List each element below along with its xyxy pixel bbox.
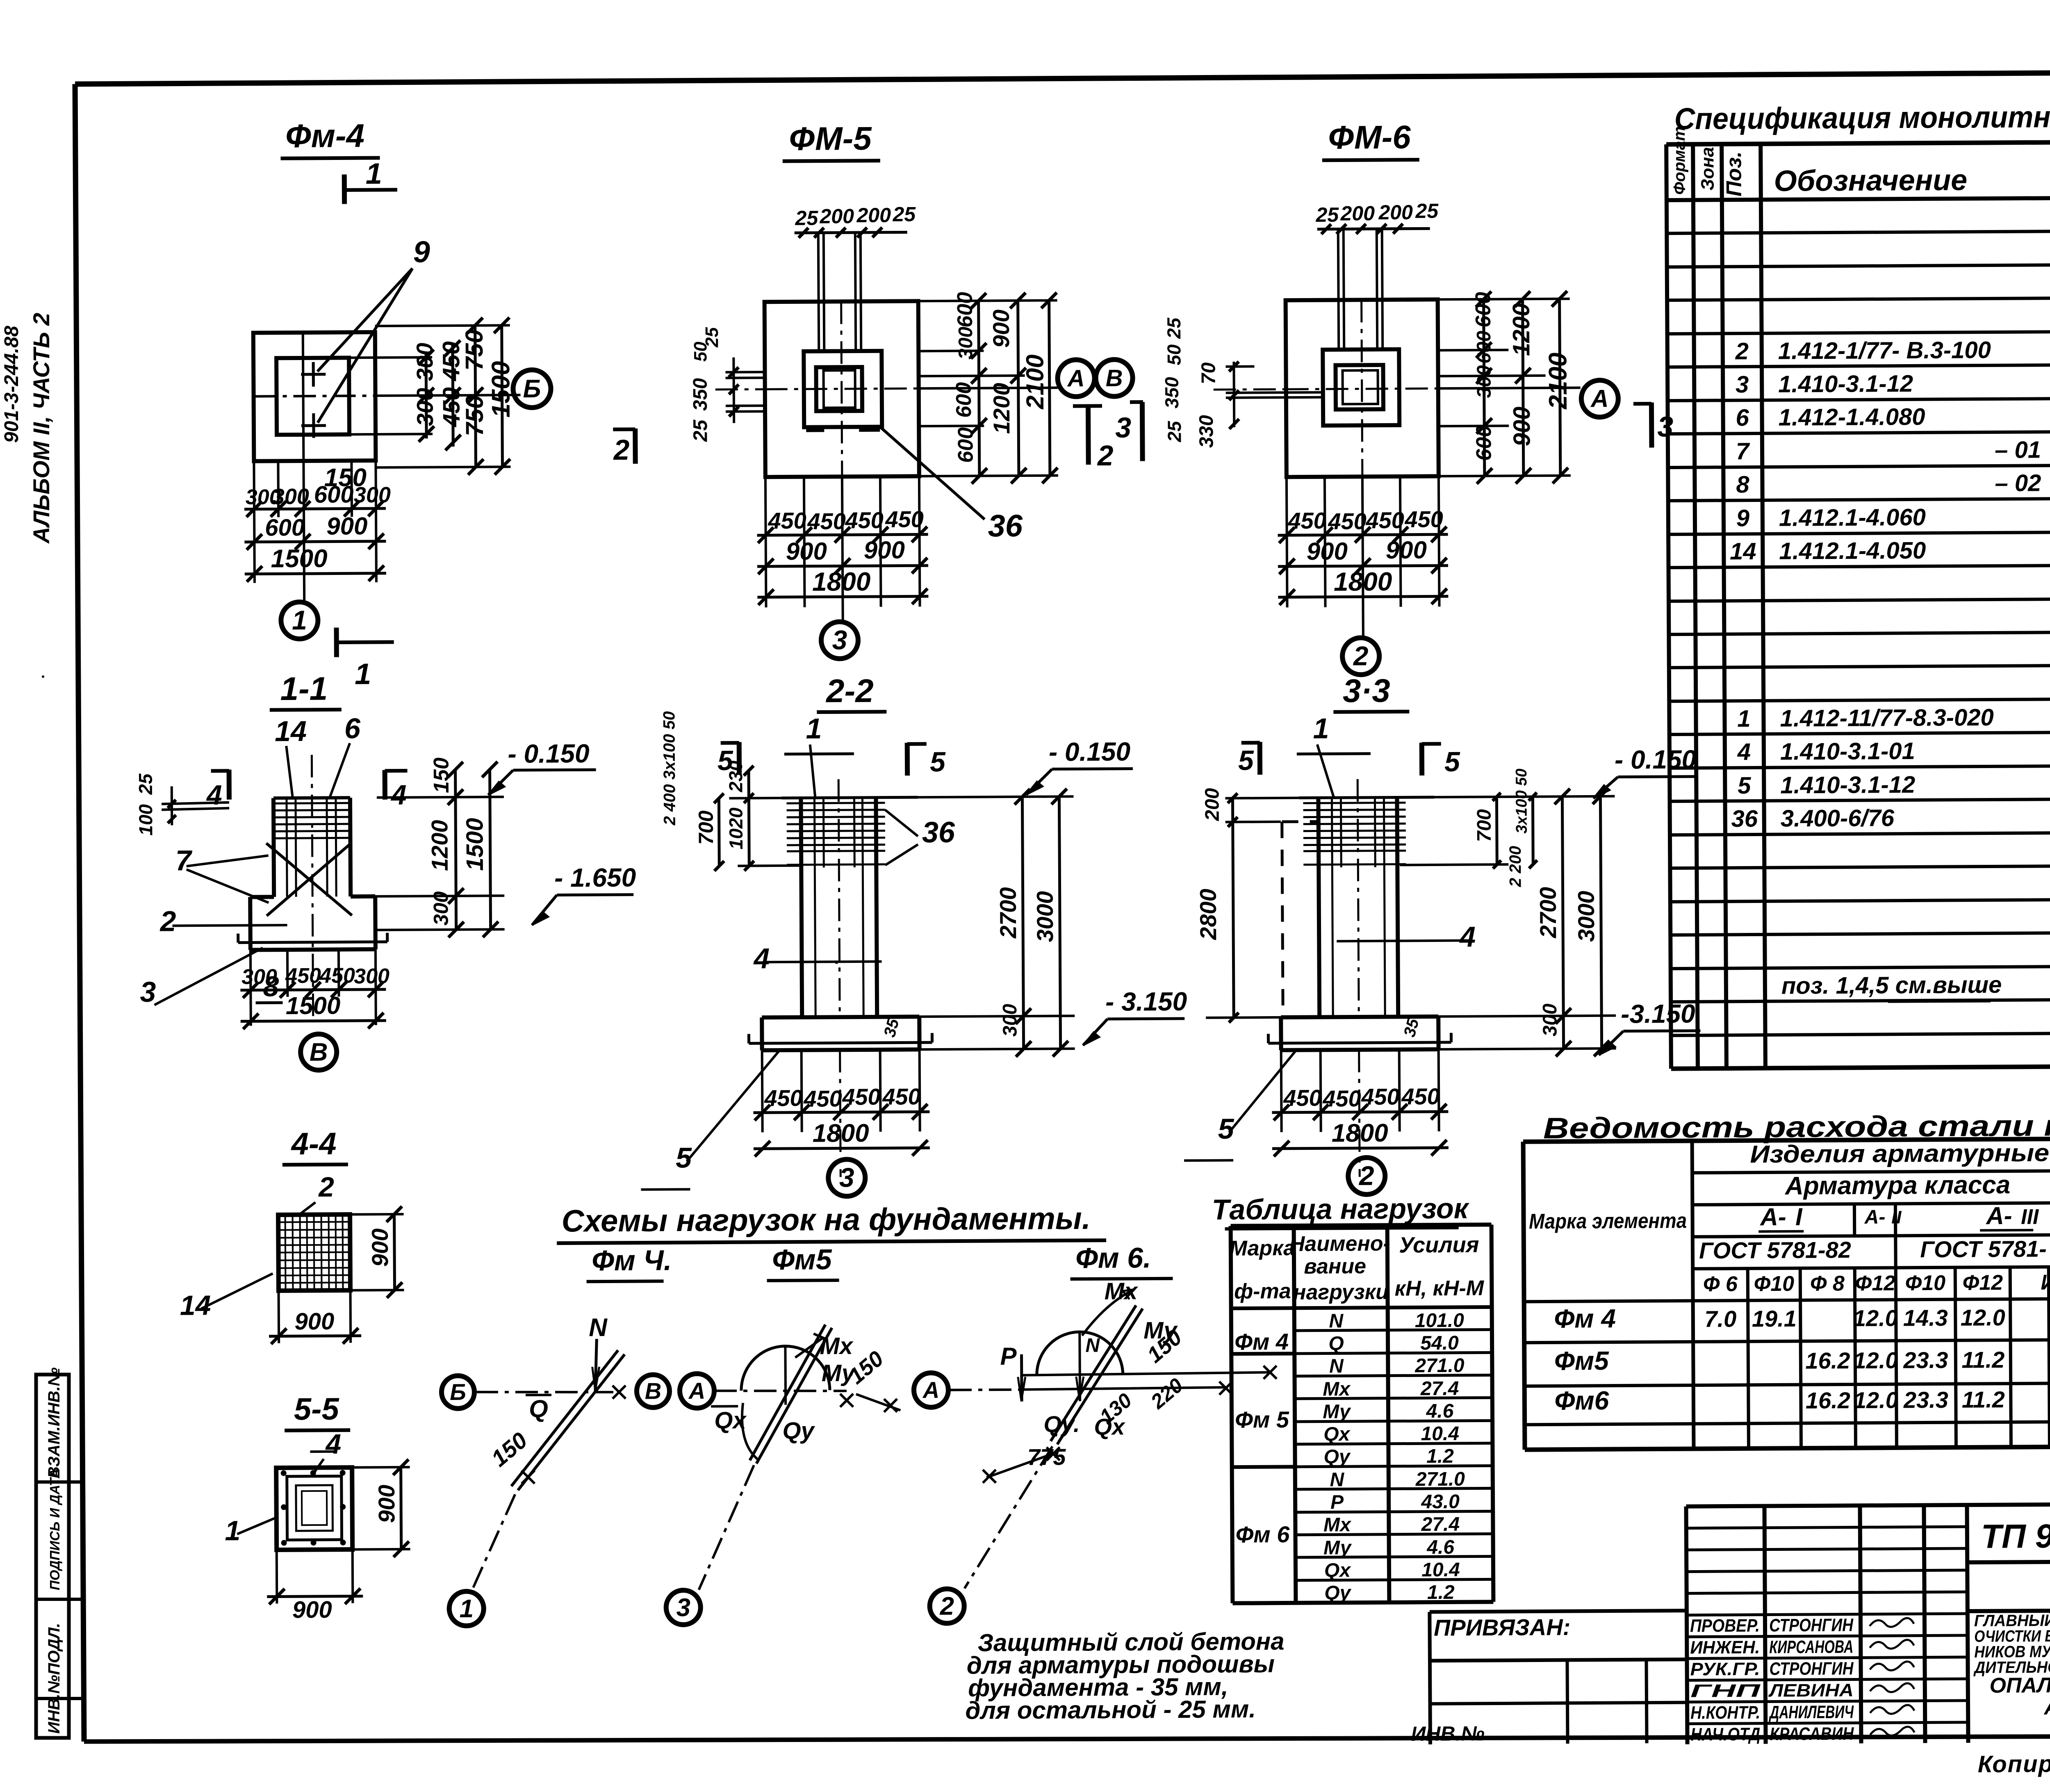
svg-text:23.3: 23.3 — [1903, 1387, 1948, 1413]
svg-text:5: 5 — [1444, 746, 1460, 777]
svg-text:200: 200 — [1378, 201, 1413, 224]
svg-text:4-4: 4-4 — [290, 1126, 336, 1162]
svg-text:ФМ-6: ФМ-6 — [1328, 119, 1411, 156]
svg-text:43.0: 43.0 — [1421, 1491, 1460, 1513]
svg-text:1.412.1-4.060: 1.412.1-4.060 — [1779, 504, 1926, 531]
svg-text:1200: 1200 — [989, 383, 1015, 434]
svg-text:16.2: 16.2 — [1805, 1347, 1850, 1374]
svg-text:Ф 8: Ф 8 — [1810, 1272, 1845, 1295]
svg-text:3: 3 — [140, 976, 156, 1008]
svg-text:1.410-3.1-12: 1.410-3.1-12 — [1778, 370, 1913, 398]
svg-text:5-5: 5-5 — [294, 1392, 340, 1427]
svg-text:- 3.150: - 3.150 — [1105, 987, 1187, 1017]
svg-text:вание: вание — [1304, 1254, 1366, 1279]
svg-text:450: 450 — [882, 1083, 921, 1109]
svg-text:1: 1 — [292, 605, 307, 635]
svg-text:Итого: Итого — [2041, 1270, 2050, 1295]
svg-text:600: 600 — [952, 382, 976, 418]
svg-text:ЛЕВИНА: ЛЕВИНА — [1768, 1680, 1854, 1701]
svg-text:КРАСАВИН: КРАСАВИН — [1770, 1724, 1854, 1744]
svg-text:1: 1 — [1313, 712, 1329, 744]
svg-text:3: 3 — [1657, 410, 1673, 442]
svg-text:- 0.150: - 0.150 — [1049, 737, 1131, 767]
svg-text:4: 4 — [325, 1429, 341, 1460]
svg-text:700: 700 — [695, 810, 717, 845]
svg-text:100: 100 — [135, 804, 156, 836]
svg-text:900: 900 — [326, 512, 367, 540]
svg-text:ГОСТ 5781- 82: ГОСТ 5781- 82 — [1920, 1236, 2050, 1262]
svg-text:Б: Б — [450, 1379, 466, 1405]
svg-text:700: 700 — [1474, 809, 1495, 842]
svg-text:3000: 3000 — [1573, 891, 1599, 942]
svg-text:25: 25 — [1163, 317, 1184, 339]
svg-text:25: 25 — [1315, 203, 1339, 226]
svg-text:1.412-1.4.080: 1.412-1.4.080 — [1778, 404, 1925, 431]
svg-text:600: 600 — [314, 481, 354, 508]
svg-text:25: 25 — [1164, 420, 1185, 442]
svg-text:450: 450 — [845, 507, 884, 533]
svg-text:70: 70 — [1198, 362, 1219, 384]
svg-text:II: II — [1891, 1207, 1902, 1227]
svg-text:350: 350 — [1161, 377, 1182, 408]
svg-text:12.0: 12.0 — [1961, 1304, 2005, 1331]
svg-text:1800: 1800 — [812, 567, 871, 597]
svg-text:– 02: – 02 — [1995, 470, 2041, 497]
svg-text:- 0.150: - 0.150 — [508, 739, 590, 768]
svg-text:– 01: – 01 — [1995, 436, 2041, 463]
svg-text:23.3: 23.3 — [1903, 1347, 1948, 1373]
svg-text:9: 9 — [413, 235, 430, 269]
svg-text:1.2: 1.2 — [1426, 1445, 1454, 1467]
svg-text:Формат: Формат — [1670, 126, 1689, 195]
svg-text:450: 450 — [764, 1085, 803, 1111]
svg-text:2: 2 — [613, 434, 629, 466]
svg-text:Ф10: Ф10 — [1905, 1271, 1946, 1295]
svg-text:Фм 4: Фм 4 — [1554, 1304, 1616, 1334]
svg-text:Ф12: Ф12 — [1963, 1271, 2003, 1295]
svg-text:1800: 1800 — [1334, 567, 1392, 597]
svg-text:Изделия арматурные: Изделия арматурные — [1750, 1139, 2049, 1168]
svg-text:Q: Q — [1328, 1333, 1344, 1354]
svg-text:2-2: 2-2 — [825, 673, 874, 709]
svg-text:Qу: Qу — [782, 1417, 815, 1444]
svg-text:Наимено-: Наимено- — [1289, 1232, 1390, 1256]
svg-text:2100: 2100 — [1544, 353, 1572, 410]
svg-text:600: 600 — [1472, 425, 1496, 461]
svg-text:600: 600 — [1471, 292, 1495, 328]
svg-text:АЛЬБОМ II, ЧАСТЬ 2: АЛЬБОМ II, ЧАСТЬ 2 — [28, 313, 54, 544]
svg-text:5: 5 — [1238, 745, 1254, 776]
svg-text:900: 900 — [294, 1308, 334, 1335]
svg-text:1: 1 — [355, 658, 371, 691]
svg-text:271.0: 271.0 — [1414, 1355, 1465, 1377]
svg-text:N: N — [1330, 1469, 1344, 1491]
svg-text:Фм6: Фм6 — [1554, 1386, 1609, 1416]
svg-text:450: 450 — [1287, 508, 1326, 533]
svg-text:1200: 1200 — [426, 820, 453, 871]
svg-text:Му: Му — [1323, 1401, 1351, 1423]
svg-text:450: 450 — [1361, 1083, 1400, 1109]
svg-text:Р: Р — [1330, 1491, 1344, 1513]
svg-text:25: 25 — [795, 207, 818, 230]
svg-text:Таблица нагрузок: Таблица нагрузок — [1212, 1192, 1469, 1226]
svg-text:300: 300 — [241, 965, 277, 989]
svg-text:Зона: Зона — [1697, 147, 1718, 190]
svg-text:8: 8 — [1736, 471, 1749, 498]
svg-text:III: III — [2021, 1205, 2039, 1229]
svg-text:3: 3 — [839, 1162, 854, 1192]
svg-text:ИНВ.№ПОДЛ.: ИНВ.№ПОДЛ. — [45, 1623, 63, 1734]
svg-text:А: А — [922, 1377, 940, 1403]
svg-text:5: 5 — [1738, 772, 1751, 799]
svg-text:12.0: 12.0 — [1853, 1305, 1898, 1331]
svg-text:600: 600 — [265, 514, 305, 541]
svg-text:7: 7 — [1736, 438, 1750, 465]
svg-text:Р: Р — [1000, 1343, 1017, 1370]
svg-text:12.0: 12.0 — [1853, 1347, 1898, 1373]
svg-text:2: 2 — [159, 905, 176, 937]
svg-text:450: 450 — [1365, 507, 1404, 533]
svg-text:Поз.: Поз. — [1722, 151, 1746, 196]
svg-text:25: 25 — [892, 203, 916, 226]
svg-text:Фм5: Фм5 — [772, 1243, 832, 1276]
svg-text:2700: 2700 — [995, 887, 1021, 939]
svg-text:Арматура класса: Арматура класса — [1784, 1171, 2011, 1200]
svg-text:Ф10: Ф10 — [1754, 1272, 1795, 1296]
svg-text:101.0: 101.0 — [1415, 1310, 1465, 1332]
svg-text:200: 200 — [1201, 788, 1223, 821]
svg-text:450: 450 — [885, 506, 924, 532]
svg-text:ГОСТ 5781-82: ГОСТ 5781-82 — [1699, 1237, 1851, 1263]
svg-text:Копировал: Логинова: Копировал: Логинова — [1978, 1749, 2050, 1777]
svg-text:900: 900 — [292, 1596, 332, 1623]
svg-text:1.412.1-4.050: 1.412.1-4.050 — [1779, 537, 1926, 565]
svg-text:3х100 50: 3х100 50 — [1513, 768, 1531, 834]
svg-text:Схемы нагрузок на фундаменты.: Схемы нагрузок на фундаменты. — [562, 1201, 1091, 1239]
svg-text:300: 300 — [412, 388, 437, 426]
svg-text:36: 36 — [1731, 805, 1758, 832]
svg-text:1.410-3.1-01: 1.410-3.1-01 — [1780, 738, 1915, 765]
svg-text:11.2: 11.2 — [1961, 1347, 2004, 1373]
svg-text:11.2: 11.2 — [1962, 1386, 2005, 1413]
svg-text:Мх: Мх — [1105, 1278, 1139, 1304]
svg-text:4: 4 — [1737, 739, 1751, 765]
svg-text:3·3: 3·3 — [1343, 673, 1390, 709]
svg-text:ПРОВЕР.: ПРОВЕР. — [1690, 1616, 1760, 1636]
svg-text:1.412-1/77- В.3-100: 1.412-1/77- В.3-100 — [1778, 337, 1991, 365]
svg-text:ФМ-5: ФМ-5 — [789, 120, 872, 157]
svg-text:СТРОНГИН: СТРОНГИН — [1769, 1615, 1854, 1635]
svg-text:27.4: 27.4 — [1421, 1514, 1460, 1535]
svg-text:16.2: 16.2 — [1806, 1387, 1850, 1414]
svg-text:900: 900 — [988, 310, 1014, 348]
svg-text:2 200: 2 200 — [1506, 846, 1525, 887]
svg-text:14: 14 — [1730, 538, 1756, 565]
svg-text:Qу: Qу — [1323, 1446, 1351, 1468]
svg-text:В: В — [645, 1378, 662, 1404]
svg-text:450: 450 — [1404, 506, 1443, 532]
svg-text:Спецификация монолитных фундам: Спецификация монолитных фундаментов Фм4-… — [1674, 98, 2050, 136]
svg-text:330: 330 — [1196, 415, 1217, 448]
svg-text:ГНП: ГНП — [1690, 1681, 1761, 1701]
svg-text:14: 14 — [275, 715, 307, 747]
svg-text:2: 2 — [318, 1172, 334, 1203]
svg-text:450: 450 — [285, 964, 321, 988]
svg-text:ПРИВЯЗАН:: ПРИВЯЗАН: — [1434, 1614, 1571, 1641]
svg-text:Фм 6: Фм 6 — [1235, 1521, 1290, 1548]
svg-text:450: 450 — [1283, 1085, 1322, 1110]
svg-text:300: 300 — [412, 343, 437, 381]
svg-text:300: 300 — [354, 483, 391, 507]
svg-text:900: 900 — [374, 1484, 399, 1523]
svg-text:5: 5 — [930, 746, 946, 777]
svg-text:3: 3 — [676, 1594, 690, 1622]
svg-text:4: 4 — [206, 780, 222, 811]
svg-text:РУК.ГР.: РУК.ГР. — [1690, 1659, 1760, 1680]
svg-text:450: 450 — [1401, 1083, 1440, 1109]
svg-text:350: 350 — [690, 378, 711, 411]
svg-text:поз. 1,4,5 см.выше: поз. 1,4,5 см.выше — [1781, 971, 2002, 999]
svg-text:4.6: 4.6 — [1426, 1400, 1453, 1422]
svg-text:450: 450 — [319, 964, 355, 987]
svg-text:1020: 1020 — [725, 807, 747, 850]
svg-text:N: N — [589, 1313, 608, 1342]
svg-text:А-: А- — [1759, 1203, 1786, 1231]
svg-text:-3.150: -3.150 — [1621, 999, 1695, 1029]
svg-text:1: 1 — [459, 1595, 474, 1623]
svg-text:2: 2 — [1096, 440, 1113, 472]
svg-text:Б: Б — [523, 375, 541, 403]
svg-text:450: 450 — [1322, 1085, 1361, 1111]
svg-text:1.412-11/77-8.3-020: 1.412-11/77-8.3-020 — [1780, 704, 1994, 732]
svg-text:900: 900 — [786, 537, 827, 565]
svg-text:2100: 2100 — [1021, 354, 1049, 410]
svg-text:N: N — [1329, 1310, 1344, 1332]
svg-text:25: 25 — [1415, 199, 1439, 222]
svg-text:для остальной - 25 мм.: для остальной - 25 мм. — [965, 1695, 1256, 1724]
svg-text:кН, кН-М: кН, кН-М — [1395, 1276, 1485, 1300]
svg-text:АРМИРОВАНИЕ: АРМИРОВАНИЕ — [2043, 1695, 2050, 1719]
svg-text:ИНВ.№: ИНВ.№ — [1411, 1722, 1485, 1745]
svg-text:300: 300 — [1473, 365, 1495, 398]
svg-text:Фм Ч.: Фм Ч. — [592, 1244, 672, 1277]
svg-text:2: 2 — [1358, 1160, 1374, 1191]
svg-text:6: 6 — [1736, 404, 1749, 431]
svg-text:450: 450 — [803, 1085, 842, 1111]
svg-text:1: 1 — [1737, 705, 1751, 732]
svg-text:4: 4 — [753, 942, 770, 974]
svg-text:А: А — [1590, 385, 1609, 412]
svg-text:2: 2 — [1353, 641, 1369, 671]
svg-text:В: В — [1105, 365, 1123, 392]
svg-text:3: 3 — [832, 625, 847, 655]
svg-text:450: 450 — [768, 508, 806, 533]
svg-text:ф-та: ф-та — [1234, 1279, 1291, 1304]
svg-text:900: 900 — [1307, 537, 1348, 565]
svg-text:N: N — [1085, 1335, 1100, 1357]
svg-text:СТРОНГИН: СТРОНГИН — [1769, 1658, 1854, 1679]
svg-text:2: 2 — [1735, 338, 1749, 365]
svg-text:Фм 6.: Фм 6. — [1075, 1242, 1151, 1274]
svg-text:19.1: 19.1 — [1752, 1306, 1797, 1332]
svg-text:1.2: 1.2 — [1427, 1582, 1455, 1603]
svg-text:54.0: 54.0 — [1420, 1332, 1459, 1354]
svg-text:750: 750 — [461, 395, 489, 436]
svg-text:3: 3 — [1115, 412, 1131, 444]
svg-text:НАЧ.ОТД: НАЧ.ОТД — [1690, 1724, 1760, 1745]
svg-text:450: 450 — [842, 1084, 881, 1110]
svg-text:150: 150 — [429, 757, 453, 793]
svg-text:50: 50 — [1163, 344, 1184, 365]
svg-text:2700: 2700 — [1535, 887, 1561, 939]
svg-text:3: 3 — [1736, 371, 1749, 398]
svg-text:900: 900 — [1386, 536, 1427, 564]
svg-text:2: 2 — [939, 1592, 954, 1621]
svg-text:1: 1 — [225, 1515, 240, 1546]
svg-text:1800: 1800 — [1332, 1119, 1388, 1148]
svg-text:Ф12: Ф12 — [1855, 1271, 1896, 1295]
svg-text:14.3: 14.3 — [1903, 1305, 1948, 1331]
svg-text:А-: А- — [1985, 1202, 2012, 1229]
svg-text:25: 25 — [702, 327, 722, 348]
svg-text:12.0: 12.0 — [1854, 1387, 1898, 1413]
svg-text:9: 9 — [1736, 505, 1750, 531]
svg-text:Фм5: Фм5 — [1554, 1346, 1610, 1376]
svg-text:N: N — [1329, 1355, 1344, 1377]
svg-text:36: 36 — [922, 816, 955, 849]
svg-text:Марка элемента: Марка элемента — [1529, 1209, 1687, 1233]
svg-text:А-: А- — [1864, 1206, 1886, 1228]
svg-text:2 400 3х100 50: 2 400 3х100 50 — [660, 711, 679, 825]
svg-text:200: 200 — [1340, 202, 1375, 225]
svg-text:25: 25 — [690, 419, 711, 442]
svg-text:900: 900 — [1508, 406, 1535, 446]
svg-text:900: 900 — [367, 1229, 393, 1267]
svg-text:Фм 4: Фм 4 — [1235, 1329, 1289, 1355]
svg-text:Н.КОНТР.: Н.КОНТР. — [1690, 1703, 1760, 1723]
svg-text:36: 36 — [988, 508, 1023, 543]
svg-text:1: 1 — [366, 157, 382, 190]
svg-text:А: А — [688, 1378, 706, 1404]
svg-text:В: В — [310, 1038, 328, 1067]
svg-text:Qх: Qх — [1094, 1414, 1126, 1439]
svg-text:1500: 1500 — [271, 545, 327, 573]
svg-text:Мх: Мх — [1323, 1514, 1352, 1536]
svg-text:ПОДПИСЬ И ДАТА: ПОДПИСЬ И ДАТА — [47, 1468, 62, 1590]
svg-text:1800: 1800 — [813, 1119, 869, 1148]
svg-text:1-1: 1-1 — [280, 670, 328, 707]
svg-text:7.0: 7.0 — [1704, 1306, 1736, 1331]
svg-text:ТП 901·3·244.88.: ТП 901·3·244.88. — [1981, 1516, 2050, 1555]
svg-text:901-3-244.88: 901-3-244.88 — [1, 326, 23, 443]
svg-text:10.4: 10.4 — [1421, 1423, 1459, 1445]
svg-text:Ф 6: Ф 6 — [1703, 1272, 1738, 1296]
svg-text:Мх: Мх — [1323, 1378, 1351, 1400]
svg-text:300: 300 — [272, 484, 309, 509]
svg-text:Qу: Qу — [1324, 1582, 1352, 1604]
svg-text:Q: Q — [529, 1395, 548, 1423]
svg-text:1500: 1500 — [461, 818, 488, 871]
svg-text:200: 200 — [856, 204, 891, 227]
svg-text:271.0: 271.0 — [1415, 1468, 1465, 1491]
svg-text:600: 600 — [953, 292, 977, 328]
svg-text:Мх: Мх — [820, 1333, 854, 1359]
svg-text:Му: Му — [1323, 1537, 1352, 1559]
svg-text:300: 300 — [955, 326, 977, 360]
svg-text:КИРСАНОВА: КИРСАНОВА — [1769, 1637, 1853, 1657]
svg-text:Qх: Qх — [1323, 1423, 1351, 1445]
svg-text:1.410-3.1-12: 1.410-3.1-12 — [1780, 771, 1915, 799]
svg-text:4: 4 — [390, 780, 407, 811]
svg-text:300: 300 — [1539, 1003, 1561, 1037]
svg-text:10.4: 10.4 — [1421, 1559, 1460, 1581]
svg-text:ВЗАМ.ИНВ.№: ВЗАМ.ИНВ.№ — [45, 1367, 63, 1478]
svg-text:Обозначение: Обозначение — [1774, 164, 1967, 197]
svg-text:27.4: 27.4 — [1420, 1378, 1459, 1400]
svg-text:300: 300 — [354, 964, 389, 988]
svg-text:Усилия: Усилия — [1399, 1233, 1479, 1258]
svg-text:6: 6 — [344, 712, 361, 744]
svg-text:Фм-4: Фм-4 — [285, 117, 364, 154]
svg-text:900: 900 — [864, 536, 905, 564]
svg-text:230: 230 — [725, 760, 746, 792]
svg-text:1200: 1200 — [1508, 303, 1535, 356]
svg-text:- 1.650: - 1.650 — [554, 863, 636, 893]
svg-text:3.400-6/76: 3.400-6/76 — [1781, 805, 1895, 832]
svg-text:I: I — [1795, 1203, 1803, 1231]
svg-text:300: 300 — [429, 891, 452, 926]
svg-text:3000: 3000 — [1032, 891, 1058, 942]
svg-text:25: 25 — [135, 773, 156, 795]
svg-text:600: 600 — [1473, 331, 1495, 364]
svg-text:А: А — [1066, 365, 1084, 392]
svg-text:Qу.: Qу. — [1043, 1411, 1080, 1437]
svg-text:Qх: Qх — [1324, 1559, 1352, 1581]
svg-text:450: 450 — [1328, 508, 1367, 534]
svg-text:300: 300 — [999, 1004, 1021, 1037]
svg-text:4.6: 4.6 — [1426, 1537, 1454, 1558]
svg-text:- 0.150: - 0.150 — [1615, 745, 1697, 775]
svg-text:1: 1 — [806, 712, 822, 744]
svg-text:Фм 5: Фм 5 — [1235, 1407, 1289, 1433]
svg-text:4: 4 — [1459, 921, 1476, 953]
svg-text:ОПАЛУБОЧНЫЙ ЧЕРТЕЖ,: ОПАЛУБОЧНЫЙ ЧЕРТЕЖ, — [1989, 1671, 2050, 1698]
svg-text:1500: 1500 — [286, 992, 341, 1019]
svg-text:2800: 2800 — [1195, 889, 1221, 940]
svg-text:600: 600 — [954, 427, 977, 463]
svg-text:200: 200 — [819, 205, 854, 228]
svg-text:450: 450 — [807, 508, 846, 534]
svg-text:ДАНИЛЕВИЧ: ДАНИЛЕВИЧ — [1768, 1702, 1854, 1722]
svg-text:Марка: Марка — [1229, 1236, 1295, 1261]
svg-text:нагрузки: нагрузки — [1293, 1280, 1389, 1304]
svg-text:ИНЖЕН.: ИНЖЕН. — [1690, 1637, 1760, 1658]
svg-text:750: 750 — [460, 329, 488, 370]
